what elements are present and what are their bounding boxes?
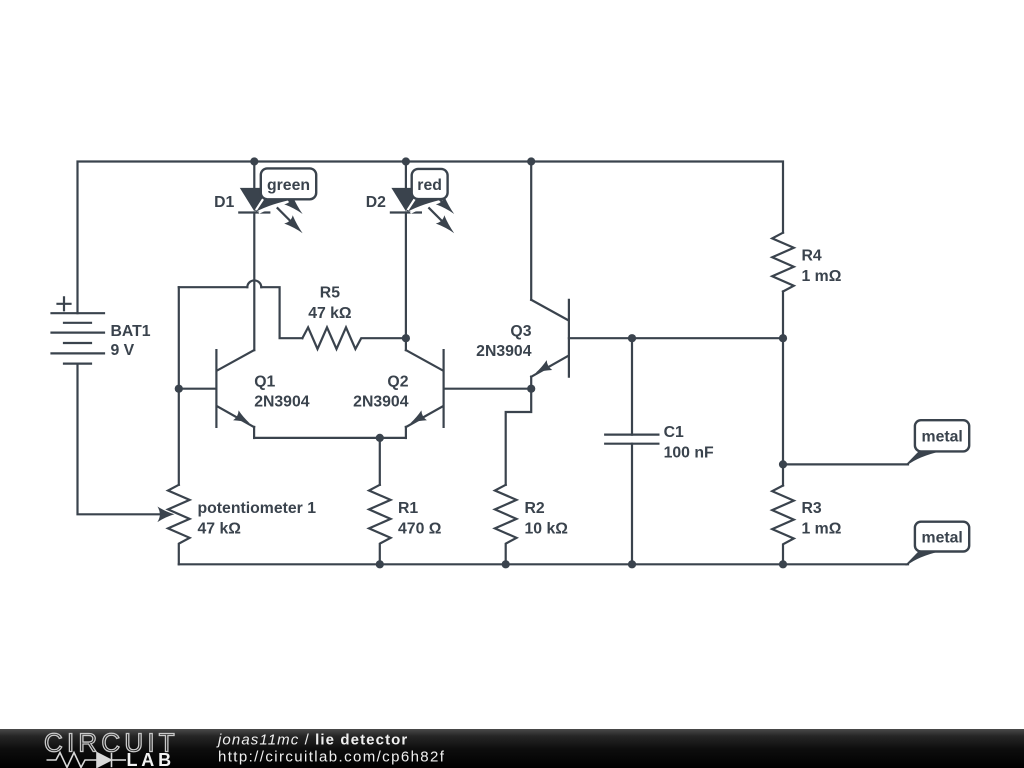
svg-text:http://circuitlab.com/cp6h82f: http://circuitlab.com/cp6h82f bbox=[218, 749, 445, 766]
svg-text:100 nF: 100 nF bbox=[664, 444, 714, 461]
node Q1 base / pot bbox=[175, 385, 183, 393]
svg-text:Q3: Q3 bbox=[510, 323, 531, 340]
svg-text:2N3904: 2N3904 bbox=[254, 393, 310, 410]
svg-text:D1: D1 bbox=[214, 194, 234, 211]
cathode wire down to Q1 collector bbox=[253, 213, 255, 351]
node Q2 base / Q3 emitter bbox=[527, 385, 535, 393]
potentiometer wiper arrow bbox=[157, 507, 174, 523]
wire Q1 base to pot line bbox=[179, 388, 217, 390]
svg-text:metal: metal bbox=[922, 530, 963, 547]
bubble tail flap bbox=[255, 199, 296, 212]
battery plates bbox=[52, 313, 105, 363]
svg-text:R2: R2 bbox=[525, 500, 545, 517]
svg-text:red: red bbox=[417, 177, 442, 194]
wire common emitter rail Q1-Q2 bbox=[254, 437, 406, 439]
resistor R2 bbox=[495, 485, 568, 565]
svg-text:47 kΩ: 47 kΩ bbox=[198, 520, 242, 537]
resistor R5 bbox=[302, 285, 406, 349]
cathode wire down to Q2 collector bbox=[405, 213, 407, 351]
svg-text:1 mΩ: 1 mΩ bbox=[802, 520, 842, 537]
top rail wire bbox=[78, 162, 784, 314]
svg-text:9 V: 9 V bbox=[111, 342, 135, 359]
cathode bar bbox=[391, 211, 421, 213]
svg-text:LAB: LAB bbox=[127, 750, 175, 768]
svg-text:2N3904: 2N3904 bbox=[476, 343, 532, 360]
light arrow upper bbox=[429, 189, 454, 214]
svg-text:1 mΩ: 1 mΩ bbox=[802, 268, 842, 285]
node R1 bottom bbox=[376, 560, 384, 568]
svg-text:R1: R1 bbox=[398, 500, 418, 517]
anode wire bbox=[405, 162, 407, 193]
node C1 bottom bbox=[628, 560, 636, 568]
lower metal probe flag bbox=[915, 522, 969, 552]
wire to upper metal probe bbox=[783, 463, 908, 465]
lower metal probe tail bbox=[905, 550, 942, 565]
resistor R4 bbox=[772, 233, 842, 486]
resistor R3 bbox=[772, 486, 842, 565]
svg-text:jonas11mc / lie detector: jonas11mc / lie detector bbox=[216, 732, 408, 749]
logo resistor+diode doodle bbox=[47, 753, 127, 768]
resistor R1 bbox=[369, 438, 442, 564]
node R3 bottom bbox=[779, 560, 787, 568]
plus sign bbox=[58, 297, 71, 310]
LED D2 bbox=[391, 162, 454, 351]
wire Q3 base to R4 node bbox=[569, 337, 783, 339]
svg-text:R4: R4 bbox=[802, 247, 822, 264]
transistor Q3 bbox=[531, 300, 569, 389]
upper metal probe tail bbox=[905, 451, 942, 466]
wire Q2 base to Q3 emitter node bbox=[444, 388, 532, 390]
node probe wire / R3 top bbox=[779, 460, 787, 468]
LED triangle bbox=[240, 188, 269, 211]
svg-text:10 kΩ: 10 kΩ bbox=[525, 520, 569, 537]
transistor Q1 bbox=[216, 350, 254, 438]
node emitter rail / R1 bbox=[376, 434, 384, 442]
node Q3 collector top bbox=[527, 157, 535, 165]
wire left loop from pot top to R5 (with hop over D1 wire) bbox=[179, 286, 248, 288]
svg-text:R5: R5 bbox=[320, 285, 340, 302]
wire Q3 emitter node jog down to R2 bbox=[506, 389, 532, 485]
svg-text:Q2: Q2 bbox=[387, 373, 408, 390]
battery BAT1 bbox=[52, 297, 151, 363]
speech bubble red bbox=[412, 169, 448, 199]
svg-text:metal: metal bbox=[922, 429, 963, 446]
light arrow upper bbox=[278, 189, 303, 214]
svg-text:470 Ω: 470 Ω bbox=[398, 520, 442, 537]
transistor Q2 bbox=[406, 350, 444, 438]
node R2 bottom bbox=[502, 560, 510, 568]
capacitor C1 bbox=[605, 338, 714, 564]
svg-text:D2: D2 bbox=[366, 194, 386, 211]
node R4 bottom bbox=[779, 334, 787, 342]
svg-text:47 kΩ: 47 kΩ bbox=[308, 305, 352, 322]
node R5/D2 bbox=[402, 334, 410, 342]
svg-text:potentiometer 1: potentiometer 1 bbox=[198, 500, 317, 517]
potentiometer 1 body bbox=[168, 287, 316, 564]
svg-text:2N3904: 2N3904 bbox=[353, 393, 409, 410]
LED D1 bbox=[239, 162, 302, 351]
bottom rail wire bbox=[179, 563, 908, 565]
upper metal probe flag bbox=[915, 420, 969, 451]
node D2 top bbox=[402, 157, 410, 165]
LED triangle bbox=[391, 188, 420, 211]
light arrow lower bbox=[278, 208, 303, 233]
cathode bar bbox=[239, 211, 269, 213]
light arrow lower bbox=[429, 208, 454, 233]
svg-text:BAT1: BAT1 bbox=[111, 323, 151, 340]
bubble tail flap bbox=[407, 199, 446, 212]
wire Q3 collector riser to top rail bbox=[530, 162, 532, 300]
node D1 top bbox=[250, 157, 258, 165]
wire battery negative down to potentiometer wiper bbox=[78, 364, 161, 515]
svg-text:R3: R3 bbox=[802, 500, 822, 517]
svg-text:Q1: Q1 bbox=[254, 373, 275, 390]
wire hop arc bbox=[247, 280, 261, 287]
speech bubble green bbox=[261, 168, 316, 199]
node Q3 base / C1 bbox=[628, 334, 636, 342]
anode wire bbox=[253, 162, 255, 193]
svg-text:green: green bbox=[267, 177, 310, 194]
svg-text:C1: C1 bbox=[664, 424, 684, 441]
